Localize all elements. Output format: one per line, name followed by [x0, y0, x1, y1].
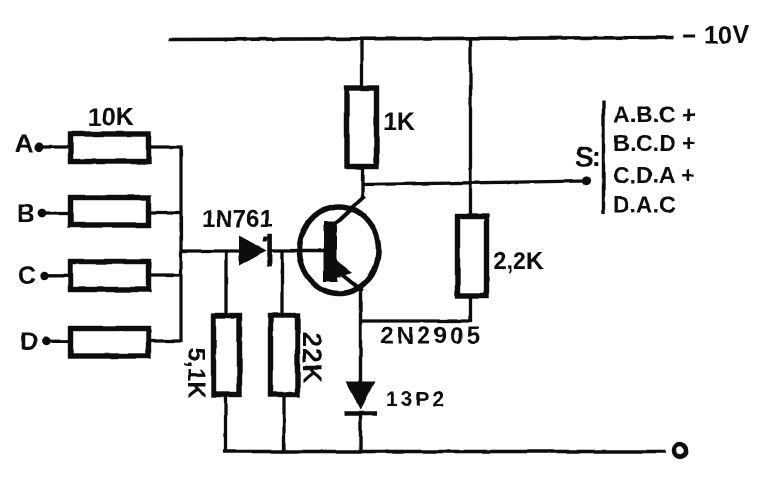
svg-text:2N2905: 2N2905 [380, 323, 483, 350]
svg-text:D: D [20, 328, 38, 356]
svg-text:C: C [18, 262, 36, 290]
svg-text:C.D.A +: C.D.A + [613, 162, 695, 188]
svg-text:2,2K: 2,2K [493, 248, 544, 275]
svg-text:1K: 1K [383, 108, 415, 136]
svg-text:13P2: 13P2 [386, 388, 447, 411]
svg-text:D.A.C: D.A.C [613, 192, 676, 218]
svg-text:V: V [733, 21, 750, 49]
svg-text:S:: S: [575, 141, 599, 172]
svg-text:10K: 10K [88, 104, 134, 132]
svg-text:–: – [682, 21, 696, 49]
svg-text:A.B.C +: A.B.C + [613, 102, 695, 128]
svg-text:B.C.D +: B.C.D + [613, 130, 695, 156]
svg-text:B: B [17, 200, 35, 228]
svg-text:1N761: 1N761 [202, 206, 273, 233]
svg-text:22K: 22K [297, 332, 327, 385]
svg-text:10: 10 [704, 22, 732, 50]
svg-text:5,1K: 5,1K [183, 348, 210, 399]
svg-text:A: A [15, 130, 33, 158]
